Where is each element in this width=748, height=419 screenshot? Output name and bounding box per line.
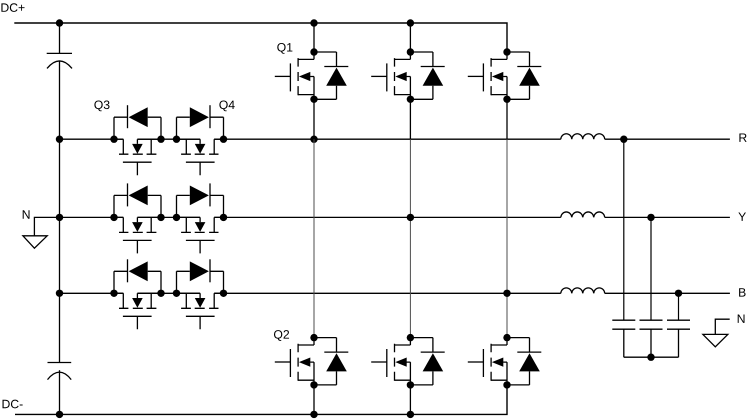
wire leg1 upper-mid <box>313 99 315 139</box>
wire phase Y line <box>60 216 730 218</box>
wire leg3 upper-mid <box>506 99 508 139</box>
wire neutral rail bottom segment <box>59 370 61 414</box>
label Q2 <box>274 330 289 341</box>
capacitor C2 <box>48 363 72 380</box>
MOSFET leg 3 high side <box>468 48 542 103</box>
junction dot leg2 / phase Y <box>407 214 414 221</box>
junction dot N rail row Y <box>56 214 63 221</box>
node N label (left) <box>23 210 30 218</box>
wire filter drop R <box>623 139 625 320</box>
DC+ bus wire <box>14 23 507 52</box>
junction dot phase R / filter <box>620 136 627 143</box>
wire leg1 bottom <box>313 385 315 415</box>
node N label (right) <box>738 315 745 323</box>
MOSFET Q1 (leg 1 high side) <box>275 48 349 103</box>
DC- bus wire <box>15 385 507 414</box>
inductor phase B <box>561 288 605 293</box>
wire leg1 top <box>313 23 315 52</box>
MOSFET bidirectional switch row Y, left <box>110 183 164 253</box>
node R label <box>739 134 746 142</box>
label Q1 <box>277 43 292 54</box>
wire leg2 top <box>409 23 411 52</box>
node Y label <box>738 213 746 221</box>
junction dot filter star point <box>647 354 654 361</box>
MOSFET bidirectional switch row B, left <box>110 259 164 329</box>
MOSFET Q4 (bidirectional switch row R, right) <box>173 105 227 175</box>
node B label <box>739 288 745 296</box>
node DC+ label <box>1 3 24 12</box>
wire neutral rail top segment <box>59 23 61 53</box>
MOSFET bidirectional switch row B, right <box>173 259 227 329</box>
MOSFET leg 3 low side <box>468 334 542 389</box>
junction dot leg1 / DC- <box>310 411 317 418</box>
MOSFET Q3 (bidirectional switch row R, left) <box>110 105 164 175</box>
junction dot N rail row B <box>56 290 63 297</box>
junction dot DC+ / C1 <box>56 19 63 26</box>
inductor phase R <box>561 134 605 139</box>
MOSFET leg 2 low side <box>371 334 445 389</box>
junction dot leg2 / DC+ <box>407 19 414 26</box>
wire neutral rail middle <box>59 61 61 363</box>
capacitor C1 <box>47 53 72 68</box>
junction dot leg1 / phase R <box>310 136 317 143</box>
junction dot DC- / C2 <box>56 411 63 418</box>
wire leg1 long middle <box>313 139 315 337</box>
capacitor filter Y <box>640 320 663 329</box>
wire filter drop Y <box>650 217 652 320</box>
inductor phase Y <box>561 212 605 217</box>
label Q4 <box>219 100 234 111</box>
junction dot leg1 / DC+ <box>310 19 317 26</box>
junction dot leg2 / DC- <box>407 411 414 418</box>
wire leg3 long middle <box>506 139 508 337</box>
node DC- label <box>3 400 23 409</box>
capacitor filter R <box>612 320 635 329</box>
wire leg2 bottom <box>409 385 411 415</box>
wire phase B line <box>60 292 730 294</box>
junction dot N rail row R <box>56 136 63 143</box>
wire leg2 long middle <box>409 139 411 337</box>
wire leg2 upper-mid <box>409 99 411 139</box>
wire filter star connection <box>624 329 679 357</box>
label Q3 <box>94 100 109 111</box>
junction dot phase B / filter <box>675 290 682 297</box>
capacitor filter B <box>667 320 690 329</box>
wire filter drop B <box>678 293 680 320</box>
MOSFET Q2 (leg 1 low side) <box>275 334 349 389</box>
MOSFET leg 2 high side <box>371 48 445 103</box>
wire phase R line <box>60 138 730 140</box>
junction dot phase Y / filter <box>647 214 654 221</box>
junction dot leg3 / phase B <box>503 290 510 297</box>
ground (right) <box>703 319 730 347</box>
ground (left) <box>23 217 60 248</box>
MOSFET bidirectional switch row Y, right <box>173 183 227 253</box>
